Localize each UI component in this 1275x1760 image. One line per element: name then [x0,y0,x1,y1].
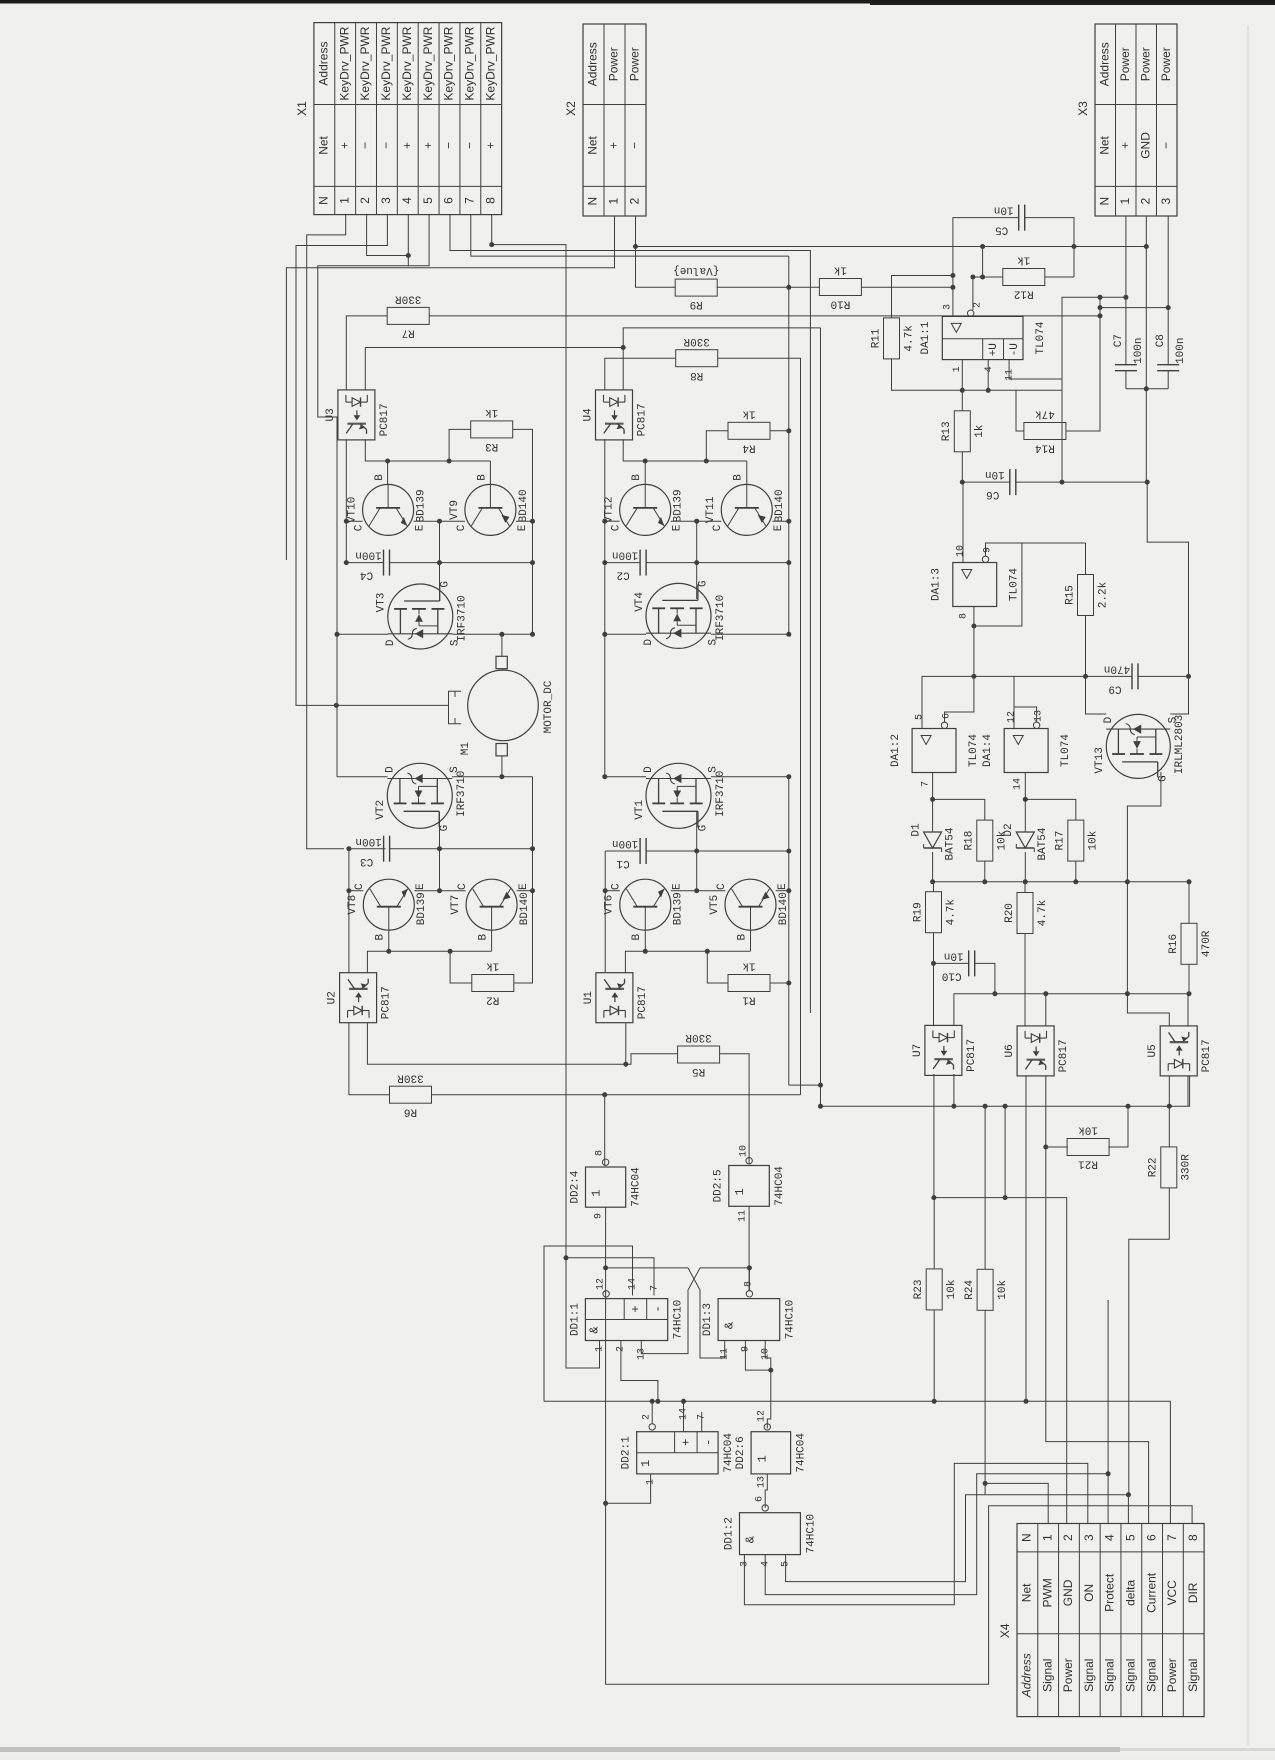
junction [437,560,442,565]
svg-text:10k: 10k [997,830,1009,850]
resistor R17 10k [1055,820,1100,861]
wire R17 bottom [1075,861,1077,882]
svg-text:Power: Power [1165,1658,1179,1692]
wire gate tap VT1 [696,812,698,891]
svg-text:D: D [1103,716,1115,723]
wire pin11 line [1009,360,1062,379]
svg-text:Net: Net [1097,135,1111,154]
junction [1126,1492,1131,1497]
wire bus4 link [820,1085,822,1106]
svg-text:U6: U6 [1004,1044,1016,1057]
transistor VT3 IRF3710 [376,581,469,649]
svg-text:1: 1 [646,1479,657,1485]
wire R2 left [450,951,472,983]
wire VT2 D row [337,776,388,778]
op-amp DA1:1 TL074 [920,316,1047,359]
junction [1125,879,1130,884]
svg-text:X1: X1 [295,101,309,116]
junction [786,632,791,637]
svg-text:M1: M1 [460,742,472,756]
svg-text:4.7k: 4.7k [1037,899,1049,926]
wire vcc rail to X4.7 [544,1401,1170,1523]
svg-text:X3: X3 [1076,101,1090,116]
junction [931,961,936,966]
svg-text:Power: Power [1061,1658,1075,1692]
svg-text:D: D [643,639,655,646]
svg-text:TL074: TL074 [1060,734,1072,767]
svg-text:3: 3 [740,1561,751,1567]
wire DD1:3 pin9 [745,1341,770,1371]
svg-text:BD139: BD139 [416,892,428,925]
svg-text:8: 8 [959,613,970,619]
wire X1.6 to bus3 [450,215,810,1013]
wire DA1:1 pin4 [962,360,988,391]
svg-text:470R: 470R [1201,930,1213,957]
junction [346,888,351,893]
wire rail motor right upper [788,256,790,634]
svg-text:TL074: TL074 [1009,568,1021,601]
logic gate DD2:6 74HC04 [735,1432,808,1474]
wire VT6.E-VT5.C [671,890,726,892]
svg-text:R17: R17 [1055,831,1067,851]
junction [1144,386,1149,391]
resistor R8 330R [676,335,718,381]
svg-text:G: G [698,580,710,587]
svg-text:+: + [400,142,414,149]
transistor VT4 IRF3710 [634,580,727,648]
svg-text:U4: U4 [582,408,594,422]
svg-text:C4: C4 [360,569,374,581]
wire VT12 C [605,520,620,522]
svg-text:C: C [611,524,623,531]
svg-text:MOTOR_DC: MOTOR_DC [543,680,555,733]
junction [1144,244,1149,249]
capacitor C10 10n [942,949,975,981]
wire DA1:4 pin13 loop [1014,707,1037,722]
wire X3.3 to C8 [1167,216,1169,364]
wire VT5.E [776,890,789,892]
wire gate rail down [1126,882,1128,994]
junction [980,275,985,280]
svg-text:R19: R19 [912,902,924,922]
svg-text:8: 8 [595,1150,606,1156]
resistor R21 10k [1067,1124,1109,1170]
svg-text:4: 4 [1103,1534,1117,1541]
svg-text:{Value}: {Value} [673,264,719,276]
svg-text:6: 6 [1144,1534,1158,1541]
wire R20 bottom to U6 [1024,934,1026,1026]
svg-text:1: 1 [590,1189,604,1196]
svg-text:C5: C5 [995,224,1008,236]
svg-text:74HC04: 74HC04 [796,1433,808,1473]
optocoupler U1 PC817 [583,973,649,1023]
capacitor C9 470n [1104,662,1138,694]
logic DD2:1 74HC04 [621,1408,735,1485]
svg-text:9: 9 [983,547,994,553]
svg-text:2: 2 [358,197,372,204]
op-amp DA1:4 TL074 [982,729,1072,773]
svg-text:10k: 10k [946,1279,958,1299]
junction [768,1368,773,1373]
wire gnd column y297 [1062,297,1126,482]
resistor R12 1k [1003,254,1045,300]
transistor VT8 BD139 [347,879,428,940]
junction [643,949,648,954]
svg-text:12: 12 [1007,711,1018,723]
svg-text:Net: Net [1020,1583,1034,1602]
wire DA1:3 pin10 [962,482,964,562]
svg-text:TL074: TL074 [1035,321,1047,354]
svg-text:DA1:3: DA1:3 [931,568,943,601]
transistor VT9 BD140 [449,474,530,536]
svg-text:VT13: VT13 [1094,747,1106,773]
resistor R15 2.2k [1064,575,1109,616]
svg-text:KeyDrv_PWR: KeyDrv_PWR [421,26,435,100]
junction [643,459,648,464]
logic DD1:3 74HC10 [702,1281,797,1360]
svg-text:5: 5 [915,714,926,720]
transistor VT12 BD139 [604,474,685,536]
svg-text:330R: 330R [685,1031,712,1043]
junction [344,519,349,524]
wire R22 bottom jog [1129,1188,1170,1495]
svg-text:R10: R10 [830,298,850,310]
logic gate DD2:5 74HC04 [713,1166,787,1207]
svg-text:10: 10 [956,545,967,557]
svg-text:9: 9 [594,1213,605,1219]
capacitor C1 100n [612,837,646,869]
wire U5 right pin up [1187,994,1189,1026]
resistor R20 4.7k [1004,893,1049,934]
wire rail motor right lower [788,777,790,1085]
wire R24 bottom PWM [984,1310,986,1494]
svg-text:R24: R24 [964,1280,976,1300]
wire U7 left pin down [933,1074,935,1198]
wire rail y1106 [821,1076,1190,1106]
logic gate DD1:1 74HC10 [569,1299,684,1341]
junction [681,1399,686,1404]
wire VT10 B [387,461,389,484]
capacitor C4 100n [355,549,389,581]
junction [705,949,710,954]
svg-text:330R: 330R [395,292,422,304]
wire C1 line [646,850,789,852]
svg-text:KeyDrv_PWR: KeyDrv_PWR [442,26,456,100]
svg-text:+: + [629,1305,643,1312]
wire R10 right [861,286,953,288]
svg-text:KeyDrv_PWR: KeyDrv_PWR [463,26,477,100]
junction [1106,1471,1111,1476]
wire DA1:3 pin9 loop [974,543,1022,626]
wire X1.3 to motor frame line [296,215,449,706]
svg-text:KeyDrv_PWR: KeyDrv_PWR [379,26,393,100]
svg-text:−: − [463,142,477,149]
svg-text:3: 3 [1159,198,1173,205]
svg-text:Power: Power [607,47,621,81]
junction [1187,879,1192,884]
junction [564,1255,569,1260]
wire U3 to C node [346,439,383,562]
wire C6 line right [1016,481,1147,483]
capacitor C7 100n [1113,334,1145,371]
junction [786,285,791,290]
junction [1145,480,1150,485]
wire R9 right [717,286,789,288]
junction [447,459,452,464]
logic gate DD2:4 74HC04 [569,1167,642,1207]
svg-text:1: 1 [952,366,963,372]
junction [499,774,504,779]
op-amp DA1:4 TL074 [982,710,1072,790]
wire base line A [365,439,490,461]
svg-text:Current: Current [1144,1572,1158,1613]
junction [499,632,504,637]
svg-text:D: D [385,766,397,773]
wire X2.2 [635,216,637,287]
capacitor C2 100n [612,549,646,581]
svg-text:2: 2 [1138,198,1152,205]
wire R9 left [636,247,676,288]
svg-text:IRF3710: IRF3710 [456,771,468,817]
junction [530,632,535,637]
junction [986,388,991,393]
wire DA1:3 pin8 [973,607,975,677]
junction [980,244,985,249]
svg-text:Address: Address [586,42,600,86]
junction [621,345,626,350]
svg-text:330R: 330R [683,335,710,347]
junction [786,981,791,986]
wire base line D [625,951,750,972]
svg-text:VT1: VT1 [634,800,646,820]
wire R10 left [789,286,820,288]
wire R14 right up [1066,297,1100,431]
svg-text:100n: 100n [612,549,638,561]
wire C2 line [646,562,789,564]
wire pin4 line right [988,389,1062,391]
resistor R5 330R [678,1031,720,1077]
wire delta line to X4.5 [985,1495,1128,1524]
wire VT3 D row [337,633,388,635]
wire VT11.E [772,520,789,522]
svg-text:Protect: Protect [1103,1573,1117,1612]
connector X2 table [564,24,646,216]
wire X3.1 to C7 [1125,216,1127,364]
wire R7 feedback line [429,315,1100,317]
svg-text:R2: R2 [486,994,499,1006]
svg-text:100n: 100n [1133,337,1145,363]
wire VT11 B [746,461,748,484]
svg-text:delta: delta [1124,1580,1138,1606]
wire C6 line left [962,481,1010,483]
capacitor C5 10n [994,204,1025,236]
wire motor bottom lead [501,756,503,777]
resistor R10 1k [819,264,861,310]
junction [1187,991,1192,996]
junction [930,797,935,802]
wire current line to X4.6 [1046,1147,1149,1524]
junction [603,1501,608,1506]
svg-text:D1: D1 [911,823,923,837]
wire gate tap VT4 [696,521,698,599]
svg-text:DD1:3: DD1:3 [702,1303,714,1336]
wire cross 1 [688,1268,725,1358]
wire R16 bottom [1188,964,1190,994]
svg-text:+: + [337,142,351,149]
svg-text:U2: U2 [327,991,339,1004]
transistor VT1 IRF3710 [634,763,727,831]
resistor R23 10k [913,1269,958,1310]
svg-text:R1: R1 [742,994,756,1006]
svg-text:G: G [439,825,451,832]
wire VT9 B [489,461,491,484]
op-amp DA1:2 TL074 [890,729,980,773]
wire U1 led pin2 down [625,1023,627,1064]
junction [1024,1399,1029,1404]
wire R15 top [1085,543,1087,575]
svg-text:2: 2 [628,198,642,205]
svg-text:14: 14 [679,1408,690,1420]
svg-text:R11: R11 [870,328,882,348]
svg-text:−: − [1159,142,1173,149]
svg-text:1k: 1k [742,960,756,972]
svg-text:14: 14 [1013,778,1024,790]
wire C10 right [975,963,995,993]
svg-text:X4: X4 [998,1623,1012,1638]
wire VT8 B [388,930,390,951]
svg-text:BAT54: BAT54 [945,827,957,860]
wire R5 left [626,1054,678,1065]
wire tap to top rail [982,247,984,278]
svg-text:+U: +U [988,343,1000,356]
logic gate DD1:2 74HC10 [723,1513,817,1555]
wire C2 line left [605,562,640,564]
junction [960,388,965,393]
svg-text:+: + [483,142,497,149]
svg-text:6: 6 [942,713,953,719]
junction [786,774,791,779]
wire R18 bottom [984,861,986,882]
svg-text:VT2: VT2 [375,800,387,820]
wire DD1:1 pin2 [621,1341,658,1402]
svg-text:D: D [643,766,655,773]
svg-text:3: 3 [379,197,393,204]
resistor R13 1k [941,411,986,452]
wire R4 left [706,431,728,461]
junction [786,519,791,524]
wire C7 bottom [1125,371,1127,389]
svg-text:DD2:6: DD2:6 [735,1436,747,1469]
wire DA1:4 pin14 down [1024,773,1026,833]
wire VT3 S row [453,633,533,635]
wire U6 pin up [1045,994,1047,1026]
wire VT1 D row [605,776,646,778]
junction [623,1062,628,1067]
wire U2 led pin2 to U1 [367,1023,625,1064]
wire rail y1085 [789,1084,821,1086]
optocoupler U3 PC817 [325,390,391,440]
junction [786,428,791,433]
transistor VT13 IRLML2803 [1094,714,1186,782]
svg-text:Net: Net [317,135,331,154]
svg-text:Power: Power [1159,47,1173,81]
svg-text:C6: C6 [986,488,999,500]
svg-text:C10: C10 [942,969,962,981]
wire X1.7 to main rail [471,215,789,257]
wire VT4 S row [711,633,789,635]
junction [786,849,791,854]
svg-text:1k: 1k [833,264,847,276]
svg-text:X2: X2 [564,101,578,116]
svg-text:DA1:2: DA1:2 [890,734,902,767]
svg-text:4: 4 [400,197,414,204]
resistor R22 330R [1148,1147,1193,1188]
junction [602,774,607,779]
junction [747,1265,752,1270]
svg-text:N: N [1097,197,1111,206]
wire U2 led pin to R6 [349,1023,390,1094]
svg-text:+: + [679,1439,693,1446]
wire base line C [367,951,491,972]
svg-text:BD140: BD140 [774,489,786,522]
wire DA1:2 pin7 down [932,773,934,833]
svg-text:R22: R22 [1148,1157,1160,1177]
junction [1003,1104,1008,1109]
logic DD2:5 74HC04 [713,1145,787,1222]
svg-text:1k: 1k [485,406,499,418]
junction [1186,674,1191,679]
wire C5 right / R12 right [1025,218,1074,277]
svg-text:R8: R8 [690,369,703,381]
svg-text:-U: -U [1009,343,1021,356]
wire gnd rail [933,881,1189,883]
svg-text:DD1:1: DD1:1 [569,1303,581,1336]
svg-text:C: C [712,524,724,531]
wire VT6 C [605,890,620,892]
svg-text:U3: U3 [325,408,337,421]
wire R21 right [1108,1106,1128,1147]
svg-text:10n: 10n [994,204,1014,216]
transistor VT2 IRF3710 [375,763,468,831]
svg-text:C: C [716,883,728,890]
svg-text:C2: C2 [616,569,629,581]
svg-text:5: 5 [421,197,435,204]
svg-text:E: E [672,524,684,531]
svg-text:PC817: PC817 [966,1039,978,1072]
svg-text:B: B [478,934,490,941]
svg-text:VCC: VCC [1165,1580,1179,1606]
svg-text:6: 6 [755,1496,766,1502]
junction [437,846,442,851]
svg-text:1: 1 [733,1188,747,1195]
svg-text:Address: Address [1097,42,1111,86]
junction [983,1104,988,1109]
wire rail y994 [954,994,1189,1026]
op-amp DA1:2 TL074 [890,713,980,787]
wire cross 2 [641,1268,700,1354]
wire R21 gnd line to X4.2 [934,1198,1067,1524]
junction [602,560,607,565]
svg-text:VT4: VT4 [634,592,646,612]
svg-text:2: 2 [642,1414,653,1420]
wire R4 right to rail [770,430,789,432]
svg-text:R9: R9 [690,298,703,310]
junction [1072,244,1077,249]
svg-text:PC817: PC817 [1058,1039,1070,1072]
junction [1023,879,1028,884]
svg-text:C: C [354,524,366,531]
wire R3 left [449,429,471,461]
